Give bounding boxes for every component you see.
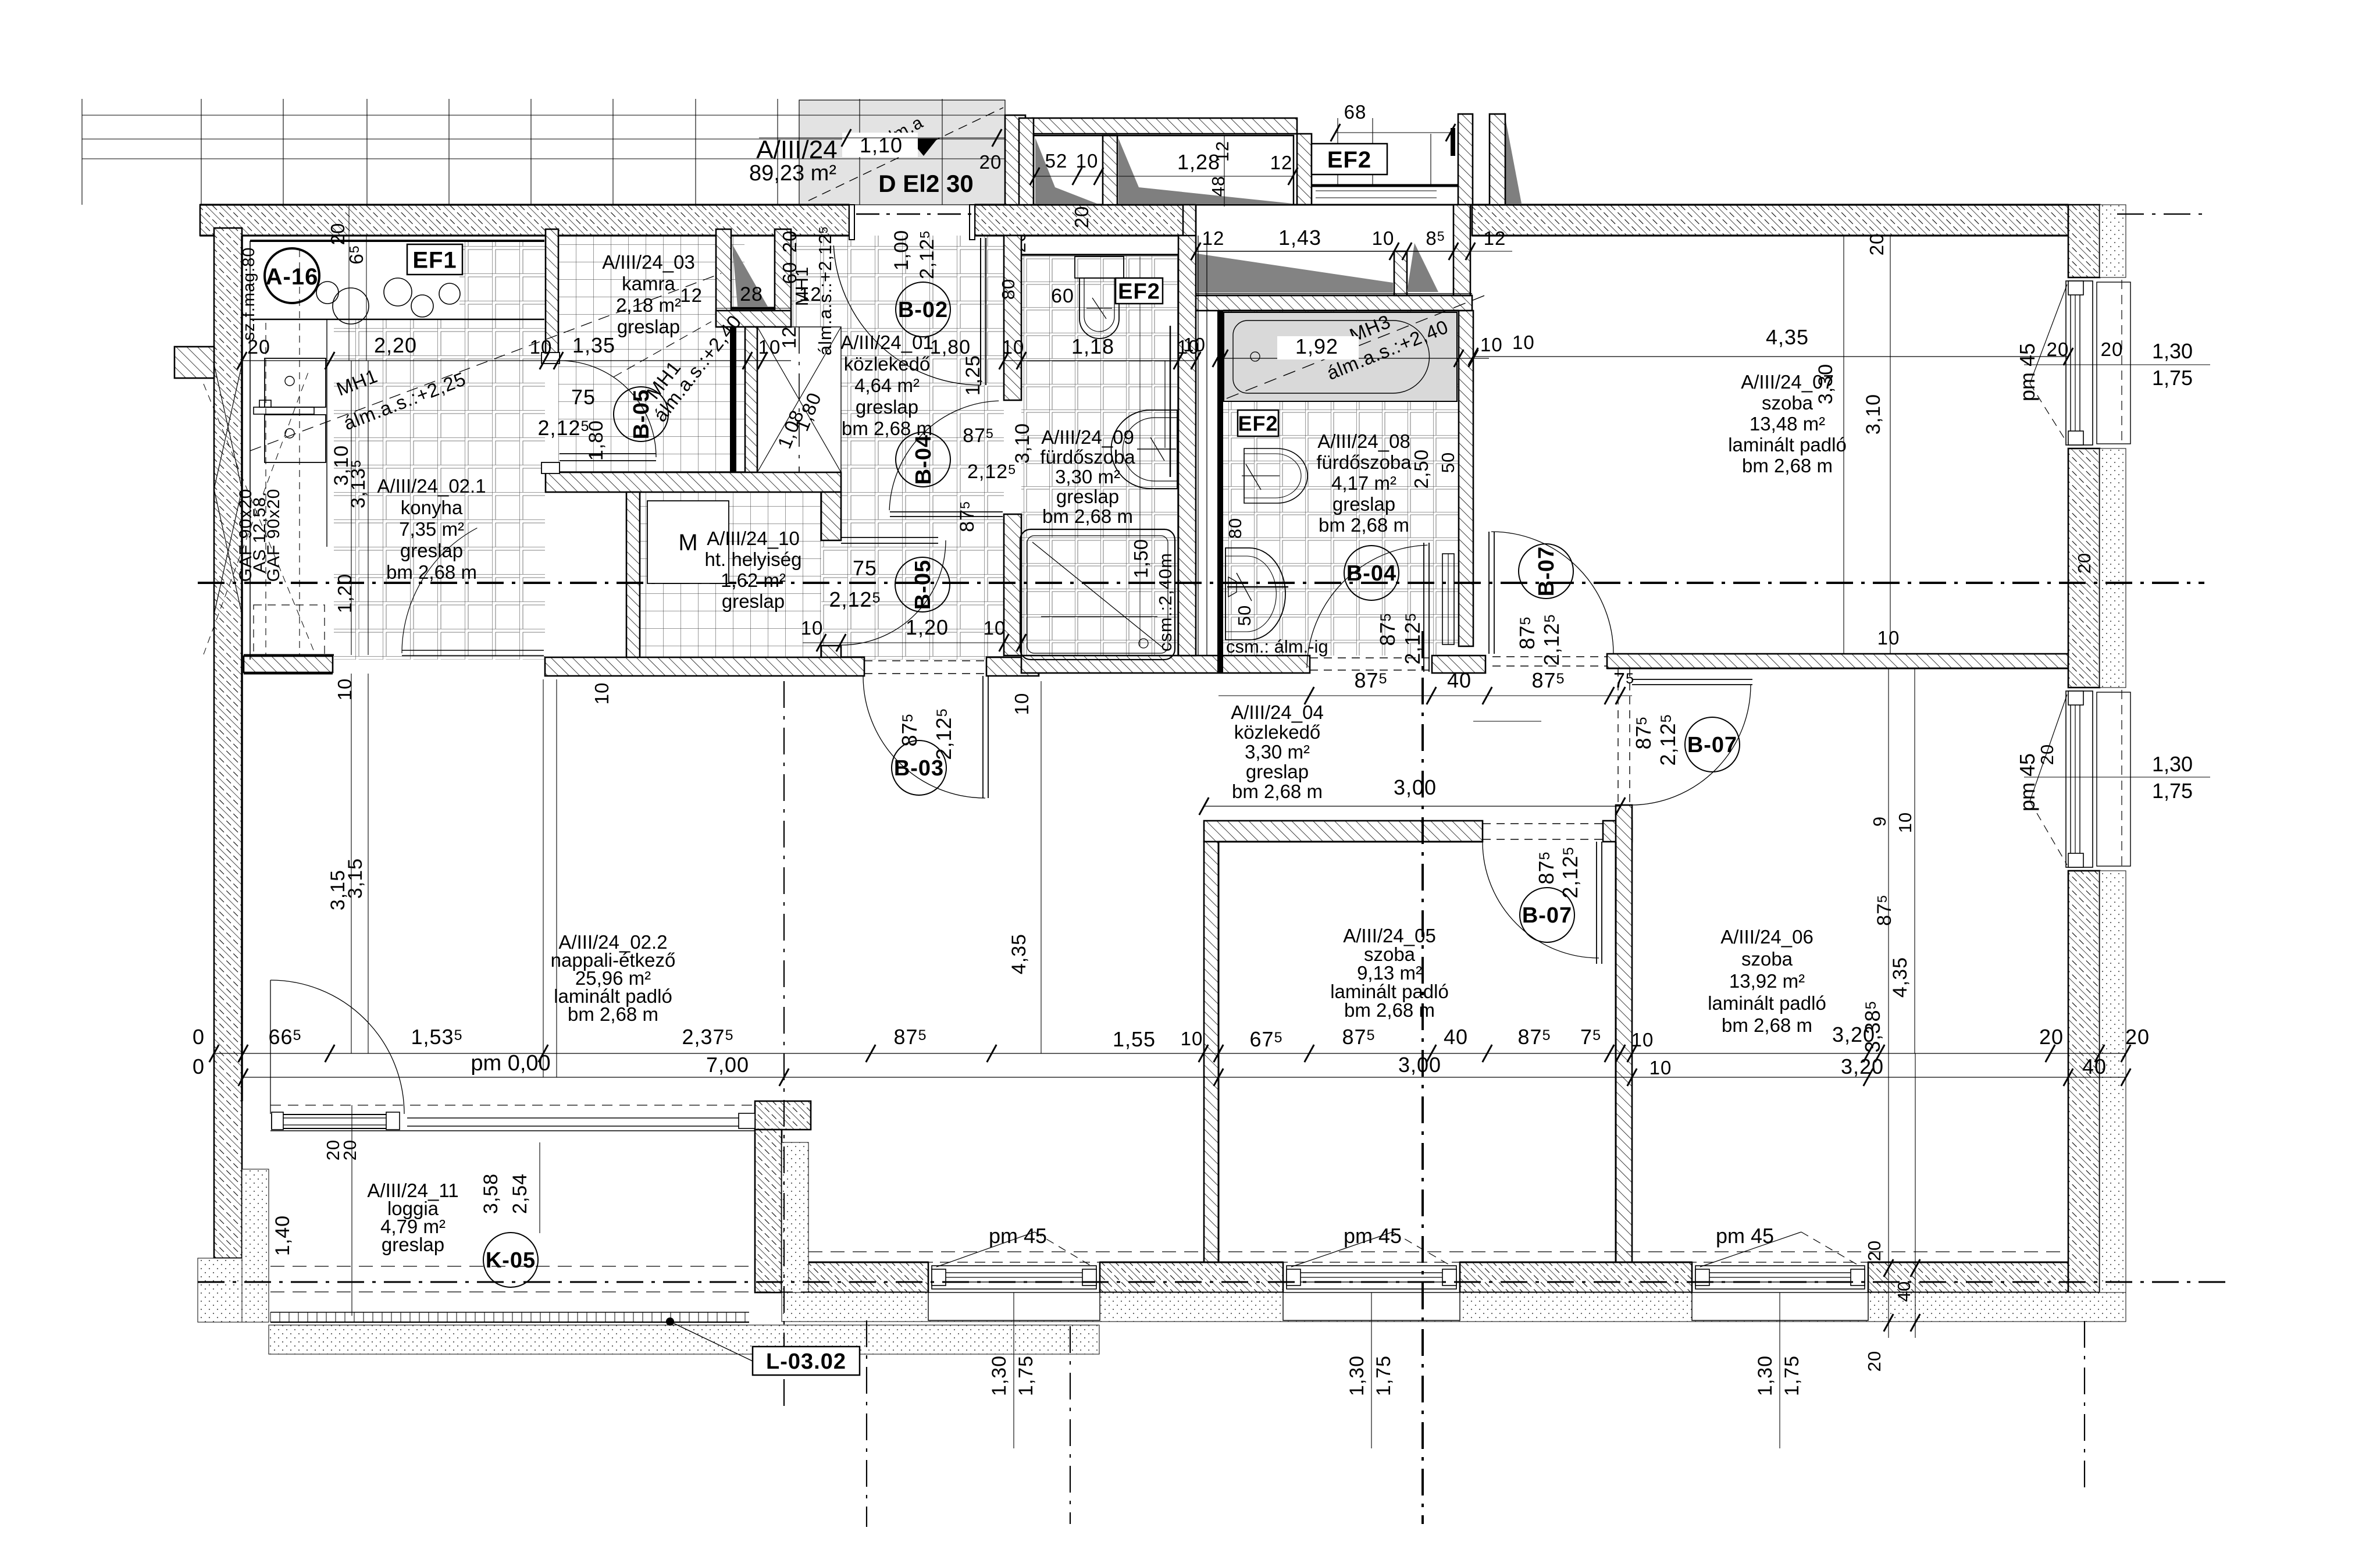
3,00 dim room05 (1204, 806, 1620, 807)
room05 door arc (1483, 842, 1599, 958)
kitchen faucet (254, 407, 314, 414)
room07 vertical dims (1843, 236, 1844, 654)
svg-text:13,48 m²: 13,48 m² (1750, 413, 1825, 435)
room06 vertical dims (1888, 668, 1889, 1053)
svg-text:greslap: greslap (856, 396, 918, 418)
svg-text:50: 50 (1438, 452, 1458, 473)
svg-text:80: 80 (1225, 518, 1245, 539)
svg-text:3,00: 3,00 (1398, 1053, 1441, 1077)
neighbour right partition (1490, 114, 1505, 205)
svg-text:40: 40 (1444, 1025, 1468, 1049)
ht.helyiseg tile floor (640, 492, 821, 660)
svg-text:3,30: 3,30 (1815, 364, 1837, 404)
svg-text:EF2: EF2 (1238, 411, 1278, 435)
svg-text:pm 45: pm 45 (1344, 1224, 1402, 1248)
entry threshold dashdot (856, 213, 972, 215)
window room06 right wall upper (2066, 691, 2130, 867)
bath 08 tile floor (1223, 311, 1459, 656)
svg-text:A/III/24_02.1: A/III/24_02.1 (377, 475, 486, 497)
window opening direction line (1700, 1232, 1801, 1267)
neighbour partition wall 2 (1297, 134, 1312, 205)
svg-text:szoba: szoba (1762, 392, 1813, 414)
axis vertical x1348 (783, 681, 785, 1413)
svg-text:3,15: 3,15 (344, 858, 366, 899)
svg-text:1,30: 1,30 (2152, 339, 2193, 363)
svg-text:1,75: 1,75 (2152, 779, 2193, 803)
svg-text:szoba: szoba (1741, 948, 1793, 970)
svg-text:A/III/24_09: A/III/24_09 (1041, 426, 1134, 448)
svg-text:1,92: 1,92 (1295, 334, 1338, 358)
svg-text:2,50: 2,50 (1410, 449, 1432, 489)
svg-text:10: 10 (334, 678, 355, 701)
room05 top wall right stub (1603, 821, 1632, 842)
svg-text:közlekedő: közlekedő (844, 353, 931, 375)
kamra niche right wall (775, 229, 791, 327)
svg-text:12: 12 (778, 326, 800, 349)
room07 opening dashes (1492, 656, 1607, 657)
svg-text:B-05: B-05 (911, 560, 935, 610)
svg-text:1,20: 1,20 (906, 615, 949, 639)
svg-text:10: 10 (1011, 693, 1032, 715)
svg-text:konyha: konyha (401, 497, 463, 518)
svg-text:0: 0 (193, 1025, 205, 1049)
bath09 washbasin (1111, 410, 1178, 489)
bath09 mirror lines (1170, 326, 1171, 477)
svg-text:1,00: 1,00 (890, 230, 913, 270)
left wall small outer stub (174, 347, 214, 378)
wardrobe shadow triangle 3 (1504, 112, 1522, 204)
1,20 niche dim (803, 642, 1024, 643)
marker B-05 corridor (895, 557, 950, 612)
top wall inner edge lines (200, 204, 849, 205)
window opening direction line (1291, 1232, 1392, 1267)
neighbour bath niche bottom wall (1189, 295, 1472, 311)
loggia left insulation (242, 1169, 269, 1322)
kamra door arc (560, 361, 656, 457)
svg-text:A/III/24_01: A/III/24_01 (840, 332, 934, 353)
bath08 opening dashes (1310, 657, 1432, 658)
neighbour niche dims (1196, 251, 1512, 252)
right outer wall upper (2068, 205, 2100, 277)
room05 door leaf (1596, 842, 1597, 964)
svg-text:1,25: 1,25 (962, 355, 984, 396)
svg-text:12: 12 (1484, 227, 1506, 249)
kitchen counter top band (250, 240, 544, 242)
svg-text:greslap: greslap (382, 1234, 444, 1255)
niche shadow wedge 1 (1197, 254, 1393, 293)
room06 opening dashes (1617, 668, 1619, 805)
B-03 door arc (863, 676, 985, 798)
svg-text:10: 10 (1480, 334, 1503, 355)
svg-text:2,54: 2,54 (509, 1173, 531, 1214)
svg-text:bm 2,68 m: bm 2,68 m (568, 1003, 658, 1025)
loggia dashed lines (270, 1266, 755, 1267)
top outer wall mid segment (975, 205, 1196, 236)
svg-text:A/III/24: A/III/24 (756, 136, 837, 164)
ht.helyiseg door arc (841, 540, 946, 645)
svg-text:10: 10 (1372, 227, 1395, 249)
svg-text:40: 40 (1447, 668, 1472, 692)
svg-text:1,50: 1,50 (1130, 539, 1152, 578)
svg-text:bm 2,68 m: bm 2,68 m (1319, 514, 1409, 536)
kitchen dashed counter lines (265, 323, 266, 656)
svg-text:10: 10 (1895, 812, 1915, 833)
svg-text:20: 20 (1071, 206, 1092, 229)
svg-text:75: 75 (571, 385, 596, 409)
svg-text:A/III/24_04: A/III/24_04 (1231, 701, 1324, 723)
svg-text:greslap: greslap (1332, 493, 1395, 515)
corridor 01 tile floor (791, 236, 1004, 660)
svg-text:20: 20 (2037, 744, 2057, 765)
svg-text:9: 9 (1869, 816, 1890, 827)
room05 top wall (1204, 821, 1483, 842)
window room06 pm45 (1669, 1262, 1891, 1320)
kitchen-kamra wall (546, 229, 558, 361)
svg-text:fürdőszoba: fürdőszoba (1316, 451, 1412, 473)
svg-text:bm 2,68 m: bm 2,68 m (1042, 505, 1133, 527)
svg-text:10: 10 (1181, 1028, 1203, 1049)
axis vertical x2446 (1421, 631, 1424, 1524)
kitchen stove circles (316, 278, 460, 324)
svg-text:1,30: 1,30 (988, 1355, 1010, 1396)
mid wall below kitchen seg1 (244, 656, 333, 672)
svg-text:10: 10 (530, 336, 553, 358)
svg-text:0: 0 (193, 1055, 205, 1078)
label ht.helyiseg 10 (647, 501, 729, 583)
kitchen sink units (265, 358, 326, 407)
svg-text:D El2 30: D El2 30 (878, 170, 973, 197)
neighbour right wall upper (1458, 114, 1473, 205)
svg-text:48: 48 (1208, 176, 1228, 197)
nappali south glass door frame (272, 1114, 398, 1128)
svg-text:pm 0,00: pm 0,00 (471, 1051, 550, 1076)
svg-text:1,75: 1,75 (1015, 1355, 1037, 1396)
svg-text:GAF 90x20: GAF 90x20 (264, 489, 283, 582)
kamra door B-05 leaf (560, 453, 656, 454)
bath09 door arc (889, 401, 999, 510)
svg-text:EF2: EF2 (1118, 280, 1160, 304)
right outer wall mid (2068, 448, 2100, 688)
left vertical dims kitchen (351, 361, 352, 655)
svg-text:greslap: greslap (722, 590, 785, 612)
shaft lines between baths (1198, 236, 1199, 656)
B-03 opening dashes (864, 660, 986, 661)
svg-text:bm 2,68 m: bm 2,68 m (1232, 781, 1323, 802)
svg-text:52: 52 (1045, 150, 1068, 172)
svg-text:1,30: 1,30 (1754, 1355, 1776, 1396)
kitchen MH1 dashed level line (250, 273, 721, 451)
svg-text:10: 10 (1512, 332, 1535, 353)
svg-text:laminált padló: laminált padló (1728, 434, 1847, 455)
bath08-room07 wall (1459, 311, 1473, 646)
svg-text:7,00: 7,00 (706, 1053, 749, 1077)
svg-text:75: 75 (853, 556, 877, 580)
svg-text:10: 10 (984, 617, 1006, 639)
bottom dim row 2 (243, 1077, 2126, 1078)
svg-text:13,92 m²: 13,92 m² (1729, 970, 1805, 992)
wardrobe niche with X (757, 327, 841, 472)
kitchen opening door leaf (402, 650, 544, 651)
room07 top dim (1473, 356, 2068, 357)
svg-text:1,75: 1,75 (1373, 1355, 1395, 1396)
left wall shaft X (214, 364, 242, 489)
room07 door arc (1491, 532, 1613, 654)
svg-text:28: 28 (740, 283, 763, 305)
svg-text:10: 10 (1002, 336, 1025, 358)
EF2 box bath09 (1116, 278, 1163, 304)
fridge dashed outline (254, 605, 325, 655)
marker B-02 (896, 282, 950, 337)
svg-text:M: M (678, 530, 697, 555)
svg-text:1,75: 1,75 (2152, 366, 2193, 390)
svg-text:80: 80 (998, 279, 1018, 300)
svg-text:greslap: greslap (1056, 486, 1119, 507)
bottom wall seg1 (782, 1262, 928, 1292)
kitchen tile floor (334, 319, 545, 660)
svg-text:L-03.02: L-03.02 (766, 1349, 846, 1374)
svg-text:A/III/24_08: A/III/24_08 (1317, 430, 1410, 452)
kamra bottom / ht.helyiseg top wall (546, 472, 841, 492)
svg-text:pm 45: pm 45 (2015, 753, 2039, 811)
kamra niche floor (732, 244, 768, 307)
svg-text:3,10: 3,10 (1011, 423, 1034, 464)
svg-text:20: 20 (779, 230, 800, 253)
svg-text:EF2: EF2 (1327, 147, 1371, 173)
kitchen opening arc (402, 528, 477, 653)
svg-text:20: 20 (1866, 233, 1887, 256)
svg-text:3,30 m²: 3,30 m² (1245, 741, 1310, 763)
svg-text:B-02: B-02 (898, 298, 948, 322)
mid wall below kitchen seg2 (545, 657, 864, 676)
svg-text:40: 40 (2082, 1055, 2107, 1078)
bath09 shower tray (1020, 529, 1175, 660)
nappali inner verticals (543, 679, 544, 1077)
svg-text:60: 60 (1051, 285, 1074, 307)
bath08 left wall black bar (1217, 311, 1223, 673)
bath09 right wall (1178, 236, 1196, 656)
bottom wall seg2 (1100, 1262, 1283, 1292)
svg-text:20: 20 (2074, 553, 2094, 574)
window dims below (1013, 1292, 1014, 1448)
svg-text:10: 10 (1183, 334, 1206, 355)
svg-text:1,55: 1,55 (1113, 1027, 1156, 1051)
ht.helyiseg right wall upper (821, 492, 841, 540)
svg-text:greslap: greslap (617, 316, 680, 337)
kamra tile floor (558, 229, 744, 472)
marker K-05 (483, 1233, 538, 1287)
marker B-07 room06 (1685, 717, 1740, 772)
nappali vertical dims (351, 674, 352, 1053)
vestibule right wall (1005, 115, 1025, 205)
svg-text:közlekedő: közlekedő (1234, 721, 1321, 743)
svg-text:1,10: 1,10 (860, 133, 903, 157)
svg-text:3,00: 3,00 (1394, 775, 1437, 799)
svg-text:1,62 m²: 1,62 m² (721, 569, 786, 591)
svg-text:10: 10 (758, 336, 781, 358)
L-03.02 leader (666, 1317, 674, 1326)
neighbour block left wall (1019, 118, 1034, 205)
left outer wall (214, 228, 242, 1258)
top outer wall right segment (1472, 205, 2068, 236)
svg-text:1,18: 1,18 (1071, 334, 1114, 358)
kamra-corridor wall black bar (730, 327, 736, 472)
svg-text:3,10: 3,10 (1862, 394, 1884, 435)
bath09 left wall upper (1004, 236, 1021, 400)
svg-text:10: 10 (1076, 150, 1099, 172)
svg-text:bm 2,68 m: bm 2,68 m (1722, 1014, 1812, 1036)
svg-text:1,80: 1,80 (585, 420, 607, 461)
svg-text:álm.a.s.:+2,125: álm.a.s.:+2,125 (815, 226, 835, 355)
bath08 door B-04 leaf (1423, 543, 1424, 672)
marker B-07 room05 (1520, 888, 1574, 942)
svg-text:B-04: B-04 (1346, 561, 1396, 586)
svg-text:B-07: B-07 (1687, 733, 1737, 757)
mid wall seg3 right of B-03 (986, 657, 1039, 676)
room06 door leaf (1632, 679, 1752, 680)
svg-text:1,35: 1,35 (572, 333, 615, 357)
neighbour fine lines (1224, 136, 1225, 206)
entry door opening jambs (849, 205, 854, 240)
suspended ceiling grid above kitchen (82, 99, 1005, 205)
loggia corner wall block (755, 1101, 811, 1130)
EF2 box bath08 (1238, 410, 1278, 436)
svg-text:1,75: 1,75 (1781, 1355, 1803, 1396)
room06 door arc (1630, 685, 1751, 805)
svg-text:A/III/24_03: A/III/24_03 (602, 251, 695, 273)
bath bottom wall seg (1021, 656, 1310, 673)
axis bottom through windows (198, 1281, 2228, 1283)
svg-text:20: 20 (979, 151, 1002, 173)
svg-text:20: 20 (2101, 339, 2124, 360)
svg-text:10: 10 (1631, 1029, 1654, 1051)
marker B-04 corridor (896, 432, 950, 487)
niche dim 12 28 12 (716, 308, 791, 309)
corridor04 vertical dim 4,35 (1041, 681, 1042, 1053)
niche wall a (1394, 251, 1407, 295)
svg-text:B-07: B-07 (1534, 546, 1559, 596)
room07 bottom wall (1607, 654, 2068, 668)
svg-text:20: 20 (2125, 1025, 2150, 1049)
svg-text:MH1: MH1 (792, 266, 812, 306)
niche top line (1196, 251, 1394, 252)
room05/06 wall (1616, 805, 1632, 1262)
svg-text:4,35: 4,35 (1889, 957, 1911, 998)
marker B-05 kamra (614, 387, 668, 441)
bath08 door arc (1307, 545, 1428, 668)
svg-text:fürdőszoba: fürdőszoba (1040, 446, 1135, 468)
kamra door jambs (541, 352, 560, 364)
svg-text:bm 2,68 m: bm 2,68 m (1742, 455, 1833, 476)
svg-text:89,23 m²: 89,23 m² (749, 161, 836, 186)
bathtub MH3 (1224, 312, 1457, 401)
svg-text:bm 2,68 m: bm 2,68 m (386, 561, 477, 583)
niche wall b / room07 left wall top (1453, 205, 1470, 295)
svg-text:1,43: 1,43 (1278, 226, 1321, 250)
vestibule ceiling diagonal dashed (808, 108, 1003, 201)
bottom wall seg4 (1868, 1262, 2068, 1292)
svg-text:12: 12 (1270, 152, 1293, 173)
svg-text:3,58: 3,58 (480, 1173, 502, 1214)
wardrobe shadow triangle 1 (1035, 138, 1097, 204)
marker A-16 (265, 248, 319, 303)
bath09 dim row (1004, 360, 1196, 361)
svg-text:2,18 m²: 2,18 m² (616, 294, 681, 316)
neighbour EF2 black fitting lines (1312, 184, 1458, 187)
bottom wall seg3 (1460, 1262, 1692, 1292)
svg-text:4,17 m²: 4,17 m² (1331, 472, 1396, 494)
svg-text:greslap: greslap (1246, 761, 1309, 782)
axis right stub (2117, 213, 2204, 215)
svg-text:A-16: A-16 (266, 264, 319, 290)
neighbour wardrobe border (1034, 136, 1294, 205)
svg-text:10: 10 (1877, 627, 1900, 649)
svg-text:50: 50 (1234, 605, 1255, 626)
svg-text:1,30: 1,30 (2152, 752, 2193, 776)
loggia right insulation (782, 1142, 808, 1292)
svg-text:12: 12 (1212, 141, 1232, 162)
svg-text:1,20: 1,20 (334, 574, 355, 613)
marker B-03 (892, 740, 946, 795)
svg-text:7,35 m²: 7,35 m² (399, 518, 464, 540)
svg-text:pm 45: pm 45 (1716, 1224, 1774, 1248)
svg-text:csm.: álm.-ig: csm.: álm.-ig (1226, 636, 1328, 657)
svg-text:kamra: kamra (622, 273, 675, 294)
svg-text:20: 20 (340, 1140, 360, 1160)
entry 1,10 dim (842, 133, 918, 157)
room05 opening dashes (1483, 823, 1606, 824)
svg-text:1,40: 1,40 (272, 1215, 294, 1256)
loggia right wall (755, 1130, 782, 1292)
svg-text:12: 12 (1202, 227, 1225, 249)
tub dim row (1217, 358, 1489, 359)
neighbour block top wall (1032, 118, 1297, 134)
svg-text:B-04: B-04 (911, 435, 936, 485)
svg-text:20: 20 (2039, 1025, 2064, 1049)
svg-text:40: 40 (1894, 1281, 1914, 1302)
svg-text:greslap: greslap (400, 540, 463, 561)
bottom insulation band (782, 1292, 2126, 1322)
ht.helyiseg right wall lower (821, 646, 841, 660)
bath08 top edge line (1223, 309, 1459, 311)
ht.helyiseg left wall (626, 492, 640, 660)
entry door leaf (980, 238, 981, 385)
loggia railing (270, 1312, 749, 1322)
svg-text:csm.:2,40m: csm.:2,40m (1155, 553, 1175, 651)
svg-text:1,30: 1,30 (1346, 1355, 1368, 1396)
bath 09 tile floor (1021, 256, 1178, 656)
kamra-corridor wall hatch strip (745, 327, 757, 472)
svg-text:3,20: 3,20 (1841, 1055, 1884, 1078)
top-left vertical dim extensions (348, 205, 350, 361)
bath08 faucet (1227, 586, 1288, 588)
top outer wall left segment (200, 205, 849, 236)
svg-text:A/III/24_06: A/III/24_06 (1720, 926, 1813, 948)
bath08 bottom pier (1432, 656, 1485, 673)
svg-text:bm 2,68 m: bm 2,68 m (1344, 999, 1435, 1021)
svg-text:12: 12 (680, 284, 703, 306)
svg-text:10: 10 (1649, 1057, 1672, 1078)
svg-text:K-05: K-05 (486, 1248, 536, 1273)
svg-text:10: 10 (801, 617, 824, 639)
room07 door leaf (1488, 532, 1490, 654)
EF2 box top (1312, 144, 1387, 175)
kitchen dim row (242, 360, 791, 361)
svg-text:EF1: EF1 (412, 247, 457, 273)
wardrobe shadow triangle 2 (1118, 138, 1293, 204)
svg-text:2,20: 2,20 (374, 333, 417, 357)
bath08 radiator (1442, 554, 1454, 644)
svg-text:10: 10 (591, 682, 612, 705)
